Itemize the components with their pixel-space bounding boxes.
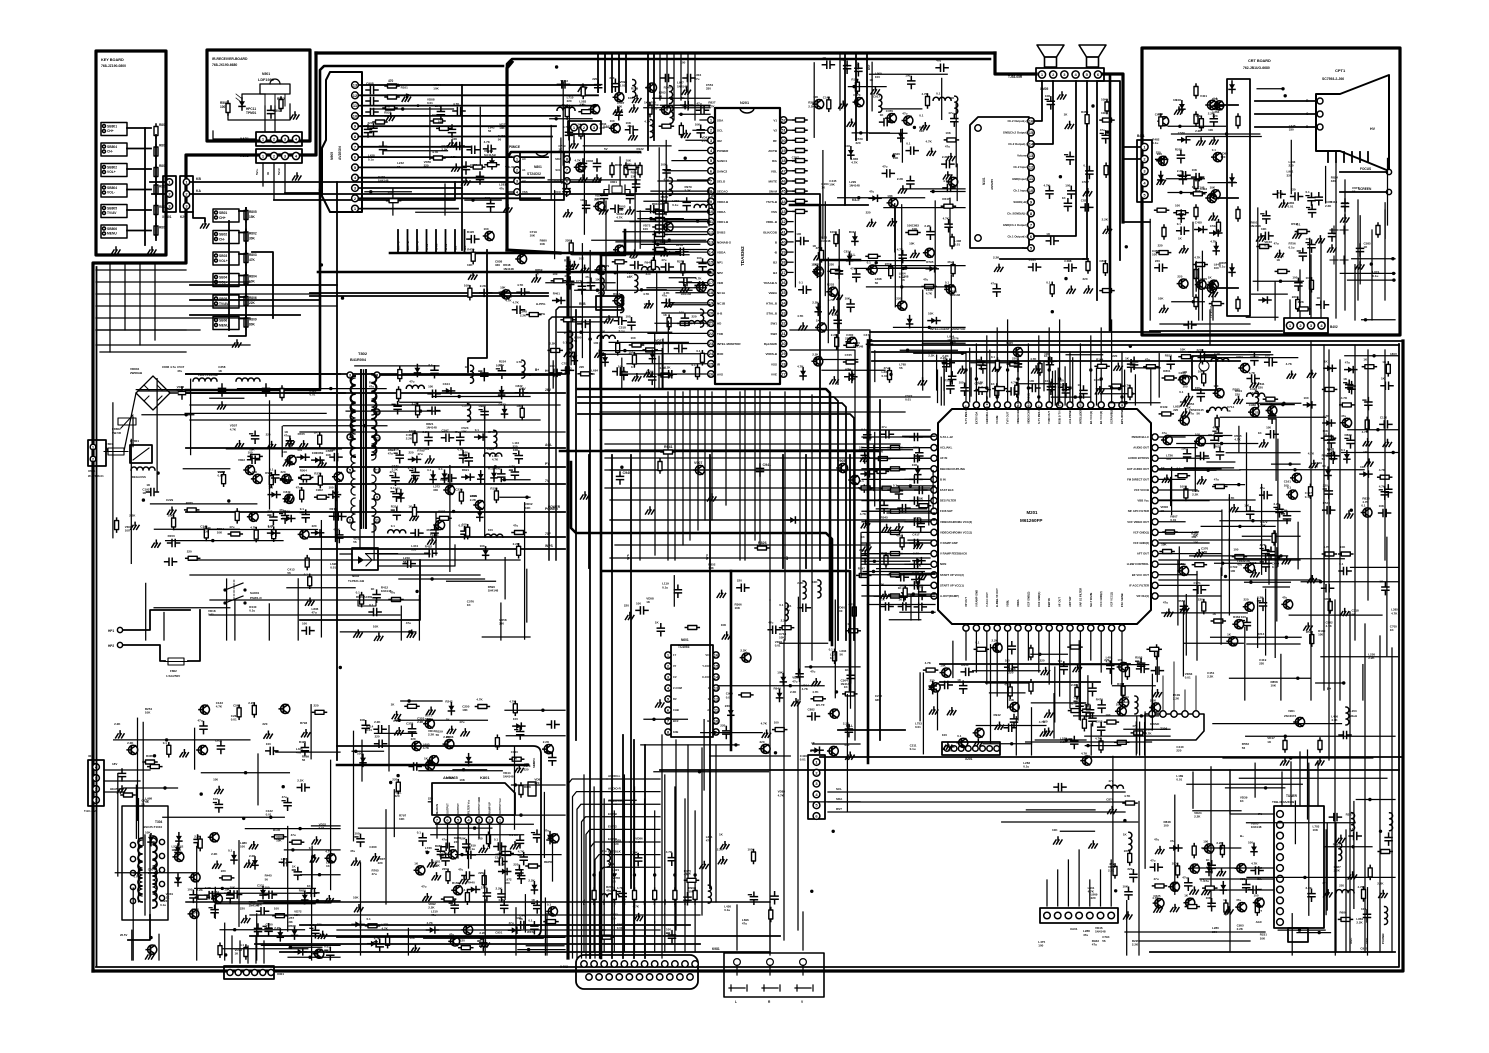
wire M201 right pin 59 (1159, 489, 1197, 491)
svg-text:GND(Ch.1 Output): GND(Ch.1 Output) (1003, 223, 1027, 227)
IC N101 pin 16 (1028, 118, 1035, 125)
connector B402 pin 1 (1286, 322, 1293, 329)
svg-text:R227: R227 (1346, 813, 1354, 817)
svg-text:220: 220 (1258, 386, 1263, 390)
flyback T304 pin L5 (130, 898, 135, 903)
resistor parts-psu-primary 15 (318, 433, 322, 447)
svg-text:330: 330 (411, 548, 416, 552)
wire X402 pin 5 up (623, 898, 625, 952)
connector area ground (201, 221, 210, 228)
bus kill route (790, 205, 860, 260)
wire EXT-BLK fan (633, 854, 635, 856)
wire M201 right pin 50 (1159, 584, 1209, 586)
capacitor parts-bl 6 (266, 747, 278, 754)
connector XS801 pin 2 (166, 191, 172, 197)
ground partsF-top 16 (839, 101, 848, 108)
svg-text:220: 220 (567, 99, 572, 103)
resistor partsM-bottom 11 (1069, 709, 1083, 713)
IC N201 pin 41 (780, 229, 787, 236)
heater cr (0, 0, 1, 1)
svg-text:2W08AB: 2W08AB (130, 371, 143, 375)
svg-text:100: 100 (830, 230, 835, 234)
svg-text:R139: R139 (1160, 405, 1168, 409)
key switch SB06 pin b (215, 324, 218, 327)
wire M201 top pin 46 (986, 336, 988, 401)
connector X402 pin b9 (667, 974, 673, 980)
svg-text:4.7K: 4.7K (1331, 718, 1338, 722)
svg-text:2.2K: 2.2K (127, 741, 134, 745)
wire key row SB804 (127, 148, 151, 150)
transistor parts-bl2 23 (325, 854, 336, 863)
connector X201 pin 5 (973, 746, 979, 752)
svg-text:A-OUT(RAMP): A-OUT(RAMP) (940, 594, 959, 598)
svg-text:30: 30 (781, 341, 786, 346)
ground partsF-top 4 (871, 87, 880, 94)
svg-text:C562: C562 (233, 703, 241, 707)
svg-text:0.1u: 0.1u (1305, 495, 1311, 499)
wire spk1 (1034, 81, 1042, 121)
resistor partsM-right 6 (1163, 530, 1177, 534)
IC M201 left pin 31 (931, 445, 937, 451)
key switch SB05 pin a (215, 297, 218, 300)
transistor partsCRT-left 25 (1158, 117, 1169, 126)
svg-text:47u: 47u (372, 872, 377, 876)
IC N201 pin 50 (780, 137, 787, 144)
IC N601 pin 6 (665, 707, 671, 713)
svg-text:R765: R765 (186, 501, 194, 505)
resistor parts-psu-primary 29 (269, 473, 273, 487)
svg-text:R259: R259 (631, 87, 639, 91)
capacitor partsE-mid 26 (567, 262, 574, 274)
svg-text:12: 12 (353, 93, 358, 98)
svg-text:100: 100 (661, 162, 666, 166)
capacitor partsE-top 20 (626, 126, 638, 133)
svg-text:0.1: 0.1 (547, 902, 552, 906)
svg-text:100: 100 (679, 311, 684, 315)
resistor R906 av (373, 120, 387, 124)
capacitor partsCRT-left 17 (1155, 264, 1167, 271)
svg-text:100: 100 (1152, 252, 1157, 256)
capacitor parts-psu-primary 23 (299, 475, 311, 482)
svg-text:0.1u: 0.1u (249, 608, 255, 612)
svg-text:FILTER Vcc: FILTER Vcc (467, 799, 471, 814)
svg-text:220: 220 (1177, 275, 1182, 279)
svg-text:47u: 47u (499, 186, 504, 190)
ground partsM-left 4 (914, 542, 923, 549)
svg-text:C168: C168 (1249, 561, 1257, 565)
IC K801 pin 2 (486, 817, 493, 824)
IC N201 pin 1 (708, 117, 715, 124)
resistor partsM-left 22 (884, 553, 888, 567)
svg-text:0.01: 0.01 (617, 926, 623, 930)
svg-text:46: 46 (781, 179, 786, 184)
resistor R801 keyboard (154, 124, 158, 138)
svg-text:2.2K: 2.2K (197, 888, 204, 892)
svg-text:56: 56 (265, 877, 269, 881)
wire focus (1340, 171, 1386, 173)
diode parts-psu-sec-top 16 (414, 365, 420, 377)
svg-text:AV2EGN: AV2EGN (338, 146, 342, 160)
IC N201 pin 21 (708, 320, 715, 327)
svg-text:C120: C120 (1380, 415, 1388, 419)
resistor parts-psu-primary 1 (318, 474, 322, 488)
IC M201 right pin 51 (1152, 572, 1158, 578)
svg-text:SB06: SB06 (219, 319, 227, 323)
connector K201 outline (180, 176, 193, 212)
svg-text:10K: 10K (1101, 98, 1107, 102)
wire R814 to pin (667, 241, 707, 243)
IC N101 pin 13 (1028, 152, 1035, 159)
transistor partsE-mid 6 (614, 245, 625, 254)
svg-text:26V: 26V (520, 387, 527, 391)
wire N905 pin 8 net (358, 136, 552, 138)
flyback T304 pin L2 (130, 856, 135, 861)
key switch SB06 pin a (215, 319, 218, 322)
connector XAB1 pin 2 (270, 135, 277, 142)
IC N201 pin 10 (708, 208, 715, 215)
svg-text:56: 56 (397, 165, 401, 169)
svg-text:10K: 10K (464, 284, 470, 288)
svg-text:2.2K: 2.2K (1071, 683, 1078, 687)
terminal HP1 (117, 627, 122, 632)
wire ext vertical 1 (397, 230, 399, 253)
svg-text:SANC2: SANC2 (717, 169, 728, 173)
svg-text:2.2K: 2.2K (434, 863, 441, 867)
capacitor partsM-right 10 polarity mark (1260, 548, 1263, 550)
resistor parts-vert 6 (405, 704, 419, 708)
svg-text:MAIN IN: MAIN IN (435, 804, 439, 814)
main board outline bottom (93, 341, 1403, 971)
diode parts-bl2 28 (294, 949, 306, 955)
svg-text:2.2K: 2.2K (480, 284, 487, 288)
capacitor parts-psu-snubber 21 (393, 508, 400, 520)
inductor partsE-top 18 (633, 80, 636, 98)
svg-text:2.2K: 2.2K (993, 255, 1000, 259)
key switch SB05 box (213, 295, 239, 308)
svg-text:B3: B3 (773, 271, 777, 275)
capacitor partsM-right 25 polarity mark (1258, 600, 1261, 602)
svg-text:220: 220 (624, 604, 629, 608)
IC N101 pin 5 (1028, 245, 1035, 252)
wire M201 top pin 43 (1017, 352, 1019, 401)
svg-text:RF: RF (773, 139, 777, 143)
svg-text:100: 100 (875, 75, 880, 79)
svg-text:50: 50 (781, 138, 786, 143)
connector XAB1 outline (256, 132, 302, 146)
connector K201 pin 3 (183, 203, 189, 209)
svg-text:220: 220 (267, 510, 272, 514)
svg-text:2.2K: 2.2K (441, 148, 448, 152)
svg-text:220: 220 (614, 842, 619, 846)
svg-text:47u: 47u (1154, 838, 1159, 842)
speaker connector pin 5 (1083, 71, 1090, 78)
resistor R814 series (653, 240, 667, 244)
resistor parts-vert2 1 (386, 934, 390, 948)
capacitor C806 xtal (627, 191, 634, 203)
resistor R813 series (653, 233, 667, 237)
resistor partsN101 6 (1105, 100, 1109, 114)
wire 5V down (285, 193, 320, 255)
ground partsE-top 16 (682, 87, 691, 94)
capacitor parts-vert2 30 polarity mark (355, 836, 358, 838)
ground partsF-col 8 (830, 377, 839, 384)
svg-text:44: 44 (781, 199, 786, 204)
IC N601 pin 12 (713, 696, 719, 702)
connector X402 pin b8 (657, 974, 663, 980)
receiver gnd (291, 112, 300, 119)
svg-text:R545: R545 (881, 516, 889, 520)
svg-text:N905: N905 (330, 152, 334, 160)
svg-text:MSCL: MSCL (544, 750, 553, 754)
svg-text:4.7K: 4.7K (663, 291, 670, 295)
svg-text:DB9 DECOUPLING: DB9 DECOUPLING (940, 467, 965, 471)
svg-text:4.7K: 4.7K (926, 292, 933, 296)
capacitor partsF-col 7 (845, 373, 857, 380)
connector 3002 pin 2 (93, 786, 100, 793)
resistor partsE-bot 9 (548, 348, 562, 352)
resistor R807 eeprom (624, 163, 628, 177)
ground partsM-right 23 (1197, 477, 1206, 484)
wire M201 right pin 63 (1159, 447, 1197, 449)
AV connector N905 pin 1 (352, 205, 359, 212)
svg-text:100: 100 (595, 278, 600, 282)
capacitor partsM-right 20 polarity mark (1260, 561, 1263, 563)
resistor parts-psu-low 1 (305, 556, 309, 570)
svg-text:C206: C206 (1179, 371, 1187, 375)
diode partsCRT-left 24 (1156, 156, 1168, 162)
svg-text:BSC25-T1010: BSC25-T1010 (143, 825, 163, 829)
svg-text:C879: C879 (1106, 798, 1114, 802)
capacitor C908 av (366, 87, 378, 94)
svg-text:13: 13 (353, 83, 358, 88)
resistor parts-bl2 1 (244, 945, 248, 959)
transistor parts-vert2 16 (447, 850, 458, 859)
svg-text:2.2K: 2.2K (297, 779, 304, 783)
wire K201 down (186, 212, 188, 255)
svg-text:220: 220 (737, 579, 742, 583)
resistor R820 power (358, 600, 376, 606)
svg-text:C807: C807 (1099, 259, 1107, 263)
capacitor partsM-bottom 26 (1107, 661, 1114, 673)
svg-text:R156: R156 (490, 486, 498, 490)
T802 pin 9 (374, 494, 380, 500)
IC M201 top pin 46 (984, 402, 990, 408)
svg-text:CH+: CH+ (107, 129, 114, 133)
key switch SB05 pin b (215, 302, 218, 305)
capacitor partsM-right 17 (1184, 449, 1191, 461)
svg-text:47u: 47u (431, 913, 436, 917)
svg-text:0.1: 0.1 (439, 467, 444, 471)
ground parts-bl2 21 (325, 896, 334, 903)
resistor partsE-bot 13 (696, 365, 700, 379)
ground partsF-mid 8 (911, 250, 920, 257)
capacitor parts-N601 7 (808, 713, 820, 720)
svg-text:28: 28 (781, 361, 786, 366)
ground partsM-bottom 3 (1041, 668, 1050, 675)
svg-text:10K: 10K (1340, 545, 1346, 549)
svg-text:SANC1: SANC1 (717, 159, 728, 163)
capacitor partsE-bot 10 (550, 369, 562, 376)
svg-text:B41R004: B41R004 (350, 358, 367, 362)
svg-text:47u: 47u (1214, 478, 1219, 482)
svg-text:47u: 47u (1278, 191, 1283, 195)
resistor R960 monitor (1038, 361, 1042, 375)
capacitor C910 av (366, 109, 378, 116)
wire M201 right pin 54 (1159, 542, 1209, 544)
capacitor partsN101 15 polarity mark (1045, 98, 1048, 100)
svg-text:YSYS-B: YSYS-B (766, 200, 778, 204)
svg-text:HP2: HP2 (108, 644, 114, 648)
transistor partsM-bottom 28 (973, 728, 984, 737)
main board outline top right (1103, 74, 1123, 222)
crt bottom wires3 (1310, 255, 1312, 318)
ground parts-N601 3 (762, 730, 771, 737)
key cluster bus (228, 221, 230, 330)
speaker connector pin 2 (1050, 71, 1057, 78)
keyboard ground right (148, 247, 157, 254)
svg-text:47u: 47u (515, 868, 520, 872)
svg-text:330: 330 (499, 622, 504, 626)
transistor parts-N601 14 (760, 744, 771, 753)
IC M201 top pin 44 (1005, 402, 1011, 408)
svg-text:SH-Y DIV/B: SH-Y DIV/B (1089, 593, 1093, 607)
svg-text:220: 220 (460, 939, 465, 943)
svg-text:10K: 10K (1192, 168, 1198, 172)
svg-text:10K: 10K (145, 711, 151, 715)
svg-text:IR-RECEIVER-BOARD: IR-RECEIVER-BOARD (212, 57, 248, 61)
svg-text:L: L (735, 1000, 737, 1004)
wire key2 row SB04 (239, 273, 246, 276)
capacitor parts-vert2 18 polarity mark (449, 902, 452, 904)
IC K801 pin 4 (465, 817, 472, 824)
resistor partsM-bottom 25 (1131, 731, 1145, 735)
IC N101 mount hole bottom (975, 235, 981, 241)
IC M201 left pin 26 (931, 498, 937, 504)
svg-text:100: 100 (499, 293, 504, 297)
wire main to B401 1 (1123, 146, 1140, 148)
svg-text:56: 56 (302, 758, 306, 762)
svg-text:5V-R: 5V-R (277, 167, 281, 175)
capacitor partsF-top 8 (936, 64, 948, 71)
svg-text:10K: 10K (540, 242, 546, 246)
svg-text:TC4053: TC4053 (678, 645, 690, 649)
svg-text:2.2K: 2.2K (249, 854, 256, 858)
svg-text:15: 15 (709, 260, 714, 265)
svg-text:1N4148: 1N4148 (841, 682, 852, 686)
diode partsF-col 4 (815, 303, 821, 315)
svg-text:4.7K: 4.7K (695, 276, 702, 280)
svg-text:100: 100 (480, 544, 485, 548)
svg-text:10K: 10K (276, 839, 282, 843)
connector XAB1 pin 1 (259, 135, 266, 142)
svg-text:2.2K: 2.2K (1377, 882, 1384, 886)
connector X301 pin 2 (235, 970, 241, 976)
wire M201 bottom pin 14 (1100, 632, 1102, 672)
svg-text:100: 100 (478, 836, 483, 840)
svg-text:0.1: 0.1 (461, 888, 466, 892)
svg-text:56: 56 (1242, 746, 1246, 750)
wire M201 right pin 60 (1159, 478, 1185, 480)
svg-text:100: 100 (1043, 719, 1048, 723)
capacitor C909 av (366, 98, 378, 105)
CRT gun pin G (1317, 111, 1323, 117)
capacitor partsM-right 15 polarity mark (1241, 620, 1244, 622)
wire R813 to pin (667, 234, 707, 236)
speaker connector outline (1036, 68, 1104, 81)
capacitor partsM-right 7 (1247, 507, 1254, 519)
inductor partsE-mid 9 (642, 267, 660, 270)
svg-text:10K: 10K (1210, 185, 1216, 189)
ground parts-bl2 9 (244, 860, 253, 867)
wire MHB fan (638, 866, 640, 868)
connector RG01 pin 2 (270, 152, 277, 159)
svg-text:A0: A0 (522, 157, 526, 161)
IC N801 pin 4 (514, 189, 520, 195)
key switch SB805 pin b (103, 212, 106, 215)
svg-text:768-JZ190-0800: 768-JZ190-0800 (101, 64, 126, 68)
ground parts-vert2 3 (355, 905, 364, 912)
AV connector N905 pin 9 (352, 123, 359, 130)
svg-text:ST24C02: ST24C02 (527, 172, 541, 176)
resistor parts-bl 13 (313, 710, 327, 714)
svg-text:R369: R369 (1081, 110, 1089, 114)
svg-text:0.1: 0.1 (1179, 390, 1184, 394)
svg-text:15K: 15K (249, 215, 256, 219)
wire k801 top (337, 764, 528, 767)
wire spk5 (1099, 81, 1121, 260)
wire MHB run (600, 867, 661, 958)
capacitor parts-N601 2 (723, 727, 730, 739)
svg-text:1N4148: 1N4148 (853, 344, 864, 348)
svg-text:220: 220 (592, 77, 597, 81)
T802 pin 11 (374, 435, 380, 441)
capacitor partsM-left 16 (912, 576, 924, 583)
svg-text:B2: B2 (773, 261, 777, 265)
speaker connector pin 4 (1072, 71, 1079, 78)
svg-text:C455: C455 (1195, 221, 1203, 225)
resistor partsE-top 13 (648, 103, 652, 117)
resistor R806 eeprom (610, 163, 614, 177)
transistor parts-bl 4 (127, 745, 138, 754)
svg-text:220: 220 (240, 907, 245, 911)
svg-text:0.01: 0.01 (330, 566, 336, 570)
svg-text:47u: 47u (369, 384, 374, 388)
wire rail PY (300, 466, 565, 468)
keyboard ground left (112, 247, 121, 254)
svg-text:HEATER: HEATER (110, 787, 123, 791)
svg-text:100: 100 (329, 486, 334, 490)
transistor parts-psu-primary 5 (333, 472, 344, 481)
svg-text:0.01: 0.01 (218, 474, 224, 478)
transistor partsF-top 9 (853, 98, 864, 107)
wire M201 left pin 27 (893, 489, 930, 491)
svg-text:14: 14 (714, 675, 719, 680)
wire N905 pin 3 net (358, 187, 462, 189)
line filter L803 (236, 378, 260, 381)
bus x645 (644, 745, 646, 958)
resistor parts-vert 1 (510, 757, 524, 761)
svg-text:4.7K: 4.7K (1186, 898, 1193, 902)
capacitor parts-vert2 8 (419, 833, 426, 845)
wire AUDIO-R fan (611, 791, 613, 793)
svg-text:2.2K: 2.2K (496, 887, 503, 891)
svg-text:1DB: 1DB (673, 730, 678, 734)
IC M201 M61260FP outline (938, 409, 1151, 624)
svg-text:2.2K: 2.2K (211, 852, 218, 856)
inductor partsE-mid 3 (635, 275, 638, 293)
svg-text:0.1: 0.1 (509, 833, 514, 837)
svg-text:OUTPUT GND: OUTPUT GND (477, 797, 481, 814)
